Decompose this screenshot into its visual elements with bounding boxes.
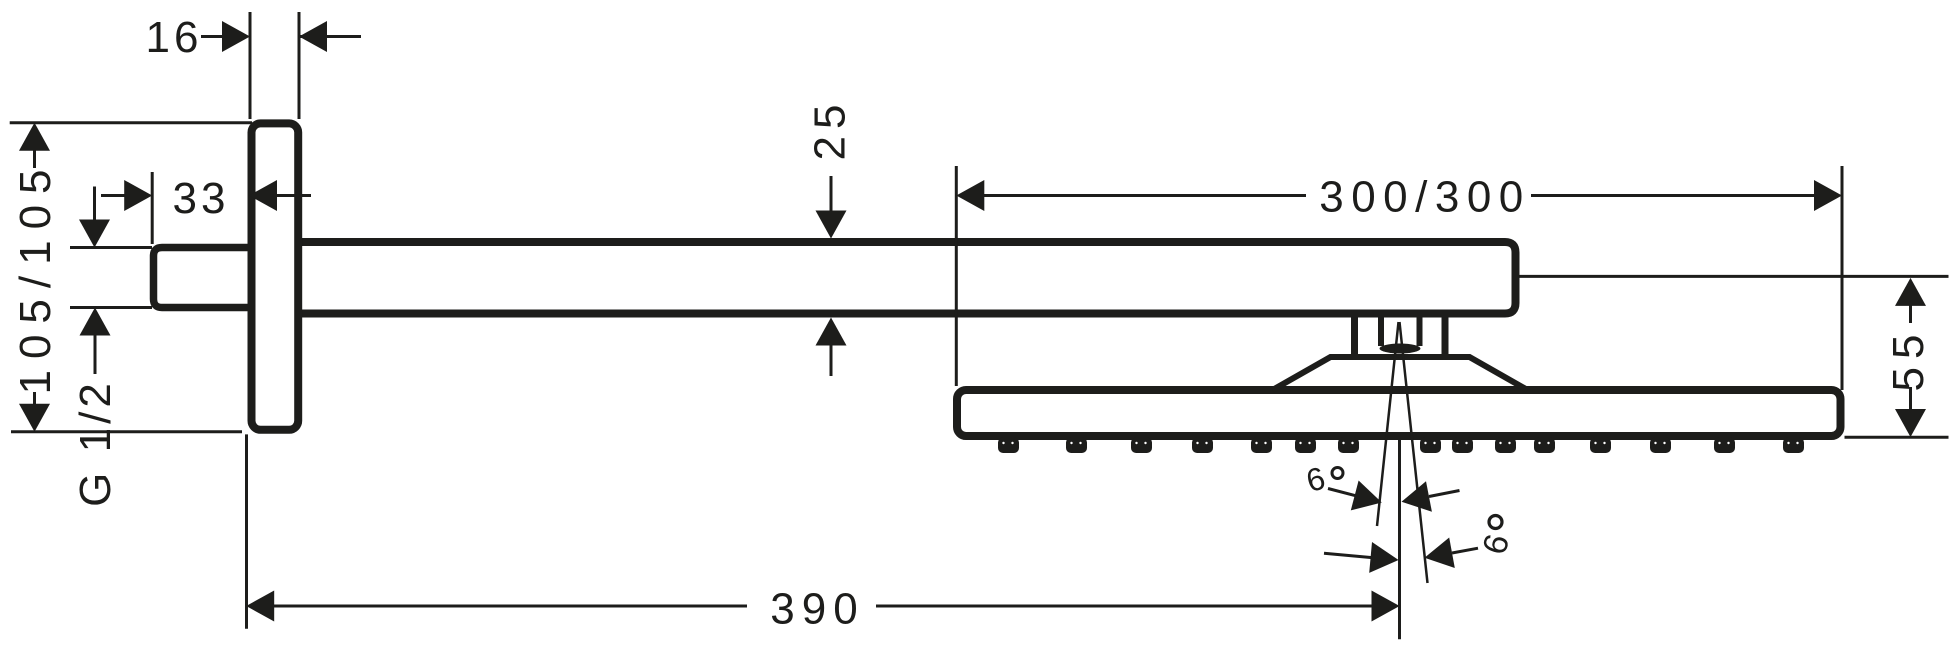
ball joint bracket inner bbox=[1381, 314, 1420, 346]
svg-text:6: 6 bbox=[1302, 460, 1329, 499]
svg-text:G 1/2: G 1/2 bbox=[71, 379, 120, 507]
55 reference bottom bbox=[1845, 436, 1949, 439]
svg-text:25: 25 bbox=[806, 98, 855, 161]
svg-text:16: 16 bbox=[146, 13, 203, 62]
55 reference top bbox=[1520, 275, 1949, 278]
dim 300/300 line segments bbox=[984, 194, 1814, 197]
shower arm bbox=[294, 242, 1516, 314]
angle leader lines bbox=[1324, 489, 1478, 558]
svg-text:33: 33 bbox=[173, 174, 230, 223]
dim 105/105 line segments bbox=[33, 149, 36, 405]
300/300 extension left bbox=[955, 166, 958, 386]
dim 33 tails bbox=[101, 194, 311, 197]
plate bottom extension bbox=[11, 430, 242, 433]
plate top extension bbox=[10, 121, 252, 124]
spray centerline bbox=[1398, 438, 1401, 639]
svg-text:6: 6 bbox=[1475, 530, 1517, 558]
plate right extension top bbox=[298, 12, 301, 119]
300/300 extension right bbox=[1841, 166, 1844, 390]
spray angle lines bbox=[1377, 322, 1428, 583]
svg-text:105/105: 105/105 bbox=[11, 158, 60, 394]
svg-text:390: 390 bbox=[770, 585, 864, 634]
svg-text:300/300: 300/300 bbox=[1319, 173, 1531, 222]
wall plate escutcheon bbox=[252, 123, 299, 429]
degree circle right bbox=[1489, 516, 1502, 529]
dim 55 line segments bbox=[1909, 305, 1912, 410]
390 extension left bbox=[245, 434, 248, 628]
ball joint opening bbox=[1380, 344, 1421, 354]
stub bottom extension bbox=[70, 306, 152, 309]
stub top extension bbox=[70, 246, 152, 249]
wall face extension top bbox=[249, 12, 252, 119]
nozzles bbox=[998, 438, 1804, 454]
head mount cone bbox=[1273, 357, 1528, 390]
shower head bbox=[957, 390, 1841, 436]
svg-text:55: 55 bbox=[1884, 327, 1933, 392]
nozzle highlights bbox=[1002, 442, 1798, 444]
G1/2 arrow shafts bbox=[93, 187, 97, 375]
inlet stub G1/2 bbox=[154, 248, 256, 308]
dim 390 line segments bbox=[274, 605, 1372, 608]
dim 16 tails bbox=[201, 35, 361, 38]
dim 33 extension bbox=[151, 172, 154, 244]
ball joint bracket outer bbox=[1355, 314, 1446, 357]
dim 25 arrow shafts bbox=[830, 176, 833, 376]
degree circle left bbox=[1332, 468, 1343, 479]
